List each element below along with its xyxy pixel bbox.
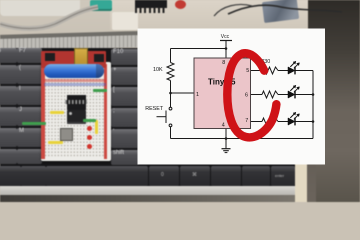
wire: Vcc stem to pin 8 — [225, 41, 227, 59]
svg-text:10K: 10K — [153, 67, 163, 73]
beige sliver bottom right — [293, 160, 307, 202]
resistor R4 — [262, 118, 278, 125]
red marker annotation C — [227, 53, 276, 137]
white translucent object top-left — [0, 0, 80, 16]
svg-text:7: 7 — [245, 118, 248, 124]
schematic sheet — [138, 29, 326, 165]
lighter desk patch center top — [110, 0, 310, 30]
wire: left vertical above resistor — [170, 49, 172, 63]
svg-text:1: 1 — [196, 92, 199, 98]
keyboard dark body left of panel — [0, 48, 138, 189]
svg-text:RESET: RESET — [145, 106, 164, 112]
junction node A (pin1 / reset) — [169, 92, 172, 95]
wire: bottom rail — [171, 138, 314, 140]
LED D3 — [288, 112, 299, 125]
wire: pin 5 stub — [251, 70, 263, 72]
wire: D2 to bus — [295, 94, 313, 96]
resistor R3 — [262, 91, 278, 98]
green jumpers — [22, 122, 46, 125]
left keys grid — [0, 48, 17, 63]
antistatic bag top right — [262, 0, 299, 23]
Vcc symbol bar — [220, 40, 232, 42]
resistor R2 330 — [262, 67, 278, 74]
keyboard top ridged bar — [0, 31, 138, 40]
svg-text:4: 4 — [222, 122, 225, 128]
red part top — [175, 0, 186, 9]
wire: top horizontal from R1 top to Vcc node — [171, 48, 227, 50]
wire: R3 to LED D2 — [278, 94, 288, 96]
wire: pin 6 stub — [251, 94, 263, 96]
wire: switch to bottom rail — [170, 127, 172, 139]
junction node bus row2 — [312, 93, 315, 96]
white paper patch — [112, 12, 138, 30]
breadboard rail stripes — [104, 64, 107, 159]
yellow jumpers — [50, 111, 64, 114]
below keyboard dark — [0, 195, 295, 202]
wire: pin 7 stub — [251, 121, 263, 123]
svg-text:5: 5 — [246, 68, 249, 74]
silver bottom edge — [0, 186, 295, 195]
resistor R1 10K — [167, 63, 174, 81]
wire: left vertical resistor to node A — [170, 81, 172, 94]
switch S1 RESET — [169, 107, 172, 110]
junction node pin4 / bottom rail — [225, 137, 228, 140]
tactile button — [60, 128, 73, 141]
breadboard — [41, 62, 111, 161]
wire: D3 to bus — [295, 121, 313, 123]
green part top — [90, 0, 112, 11]
junction node at Vcc tee — [225, 47, 228, 50]
svg-text:6: 6 — [245, 92, 248, 98]
wire: right bus vertical — [312, 71, 314, 139]
junction node bus row3 — [312, 120, 315, 123]
keyboard dark body below panel — [130, 160, 295, 189]
dark object right side — [308, 0, 360, 202]
red PCB — [41, 51, 106, 68]
ground — [222, 148, 231, 150]
IC U1 Tiny 85 body — [194, 58, 251, 129]
wire: R4 to LED D3 — [278, 121, 288, 123]
svg-text:Vcc: Vcc — [221, 34, 230, 40]
black DIP module on breadboard — [67, 95, 86, 110]
blue capacitor bar — [44, 64, 104, 78]
wire: pin 4 to ground — [225, 129, 227, 149]
black pin header comb — [135, 0, 167, 8]
wire: D1 to bus — [295, 70, 313, 72]
desk top area — [0, 0, 360, 60]
wire: R2 to LED D1 — [278, 70, 288, 72]
svg-text:8: 8 — [222, 60, 225, 66]
LED D1 — [288, 61, 299, 74]
red LEDs column — [87, 126, 92, 131]
LED D2 — [288, 85, 299, 98]
wire: pin 1 horizontal — [171, 92, 195, 94]
wire: node A down to switch — [170, 93, 172, 107]
